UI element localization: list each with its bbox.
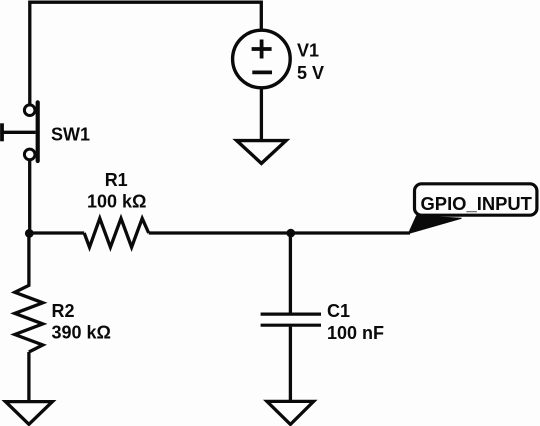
node A junction dot (SW1 / R1 / R2)	[25, 229, 34, 238]
svg-text:R2: R2	[52, 301, 75, 321]
wire: R1 to node B and on to GPIO flag	[149, 231, 410, 234]
net flag GPIO_INPUT : box	[415, 184, 537, 215]
ground (below V1)	[237, 141, 286, 164]
wire: node A to R1	[30, 231, 84, 234]
capacitor C1	[261, 314, 321, 325]
wire: SW1 to node A	[28, 160, 31, 233]
svg-text:390 kΩ: 390 kΩ	[52, 322, 111, 342]
wire: R2 to ground	[27, 352, 30, 401]
ground (below R2)	[6, 402, 53, 425]
net flag GPIO_INPUT : pointer wedge	[409, 216, 462, 234]
resistor R2	[15, 233, 43, 352]
svg-text:V1: V1	[297, 40, 319, 60]
node B junction dot (R1 / C1 / GPIO_INPUT)	[287, 229, 296, 238]
wire: C1 to ground	[289, 327, 292, 401]
svg-text:GPIO_INPUT: GPIO_INPUT	[421, 193, 533, 214]
svg-text:SW1: SW1	[51, 124, 90, 144]
svg-text:100 nF: 100 nF	[327, 323, 384, 343]
wire: node B to C1	[289, 233, 292, 313]
pushbutton switch SW1	[2, 102, 38, 161]
svg-text:100 kΩ: 100 kΩ	[87, 191, 146, 211]
svg-text:C1: C1	[327, 301, 350, 321]
svg-text:R1: R1	[105, 170, 128, 190]
voltage source V1	[233, 30, 291, 88]
wire: top rail from SW1 to V1	[30, 2, 261, 104]
resistor R1	[84, 218, 149, 247]
svg-text:5 V: 5 V	[297, 63, 324, 83]
wire: V1 to ground	[260, 88, 263, 140]
ground (below C1)	[267, 401, 314, 424]
